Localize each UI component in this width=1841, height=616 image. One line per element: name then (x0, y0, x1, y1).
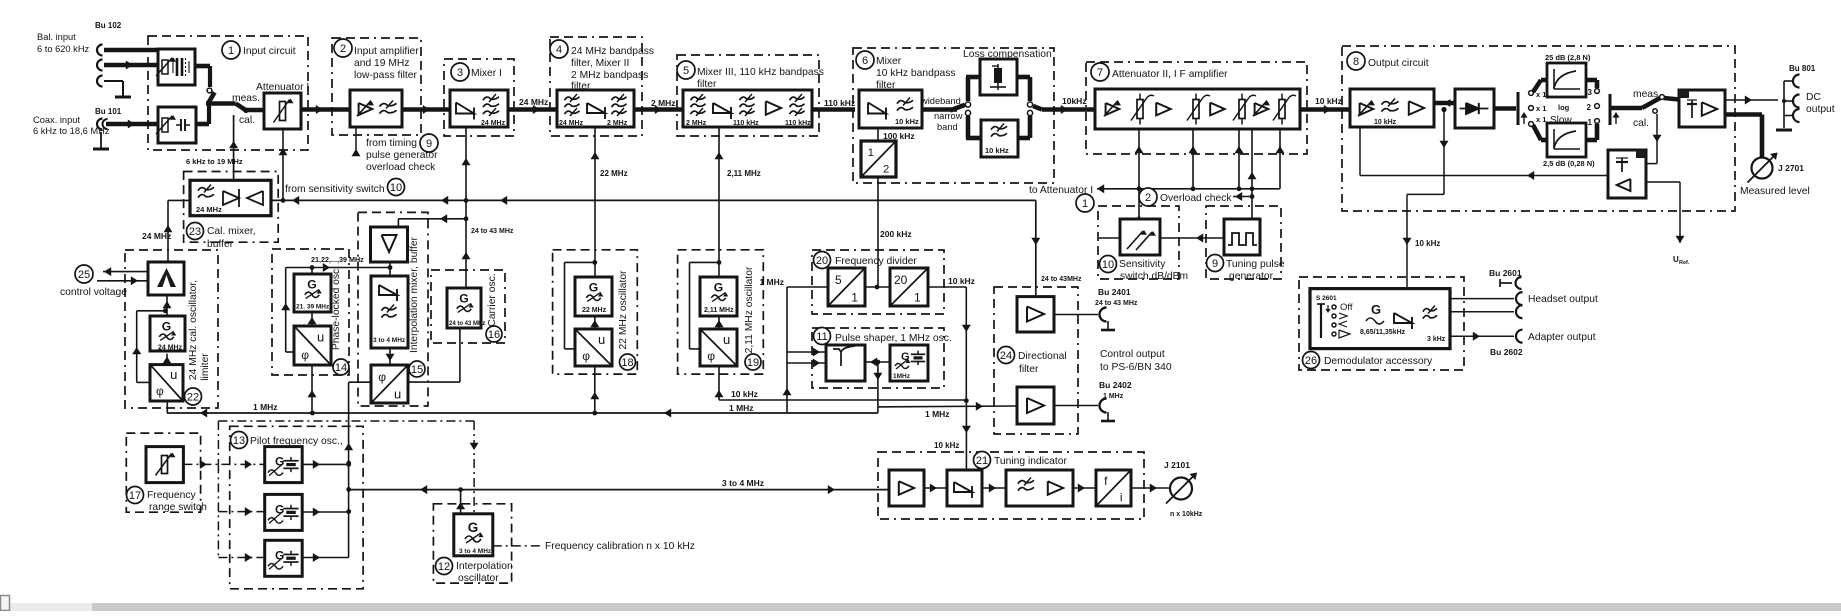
svg-text:10 kHz: 10 kHz (1415, 239, 1440, 248)
svg-text:1 MHz: 1 MHz (253, 402, 278, 412)
svg-text:1 MHz: 1 MHz (759, 277, 784, 287)
svg-text:1: 1 (914, 290, 921, 304)
svg-text:wideband: wideband (920, 96, 961, 106)
svg-text:cal.: cal. (239, 115, 255, 126)
svg-text:u: u (170, 367, 177, 382)
svg-text:pulse generator: pulse generator (366, 150, 438, 161)
svg-text:Coax. input: Coax. input (33, 115, 80, 125)
svg-text:15: 15 (411, 364, 423, 376)
svg-text:range switch: range switch (149, 502, 207, 513)
svg-text:and 19 MHz: and 19 MHz (354, 58, 410, 69)
svg-text:Attenuator II, I F amplifier: Attenuator II, I F amplifier (1112, 69, 1228, 80)
svg-text:10 kHz: 10 kHz (1315, 96, 1342, 106)
svg-text:25: 25 (78, 269, 90, 281)
svg-text:21,22,...,39 MHz: 21,22,...,39 MHz (311, 255, 364, 264)
svg-text:10 kHz: 10 kHz (1374, 119, 1397, 126)
svg-text:Frequency: Frequency (147, 490, 197, 501)
svg-text:Directional: Directional (1018, 351, 1067, 362)
svg-text:2,11 MHz oscillator: 2,11 MHz oscillator (744, 266, 755, 353)
svg-text:G: G (589, 281, 598, 295)
svg-text:Bu 2601: Bu 2601 (1489, 268, 1522, 278)
svg-text:Bu 2602: Bu 2602 (1490, 347, 1523, 357)
svg-text:Frequency calibration n x 10: Frequency calibration n x 10 kHz (545, 541, 695, 552)
svg-text:11: 11 (816, 331, 827, 343)
svg-text:110 kHz: 110 kHz (785, 120, 811, 127)
svg-text:Frequency divider: Frequency divider (835, 256, 917, 267)
svg-text:Tuning indicator: Tuning indicator (994, 456, 1067, 467)
svg-text:6: 6 (862, 55, 868, 67)
svg-text:1MHz: 1MHz (893, 373, 911, 380)
svg-text:26: 26 (1305, 355, 1317, 367)
svg-text:21. 39 MHz: 21. 39 MHz (296, 304, 330, 311)
svg-text:24 MHz: 24 MHz (481, 120, 506, 127)
svg-text:Adapter output: Adapter output (1528, 332, 1596, 343)
svg-text:100 kHz: 100 kHz (883, 131, 915, 141)
svg-text:u: u (598, 332, 605, 347)
svg-text:24 MHz: 24 MHz (158, 345, 183, 352)
svg-text:2 MHz: 2 MHz (607, 120, 628, 127)
svg-text:14: 14 (335, 362, 347, 374)
svg-text:DC: DC (1806, 92, 1821, 103)
svg-text:G: G (459, 292, 468, 306)
svg-text:2: 2 (340, 43, 346, 55)
svg-text:Ref.: Ref. (1679, 260, 1690, 266)
svg-text:φ: φ (301, 348, 309, 362)
svg-text:1: 1 (868, 147, 874, 159)
svg-text:3: 3 (457, 67, 463, 79)
svg-text:filter: filter (697, 79, 717, 90)
svg-text:1 MHz: 1 MHz (925, 409, 950, 419)
svg-text:Bu 102: Bu 102 (95, 21, 122, 30)
svg-text:10 kHz bandpass: 10 kHz bandpass (876, 68, 956, 79)
svg-text:2 MHz: 2 MHz (686, 120, 707, 127)
svg-text:2 MHz: 2 MHz (651, 98, 676, 108)
svg-text:Input amplifier: Input amplifier (354, 46, 419, 57)
svg-text:9: 9 (1212, 258, 1218, 270)
svg-text:Phase-locked osc.: Phase-locked osc. (331, 266, 342, 350)
svg-text:16: 16 (488, 329, 500, 341)
svg-text:Sensitivity: Sensitivity (1119, 259, 1166, 270)
svg-text:19: 19 (747, 357, 759, 369)
svg-text:G: G (1371, 302, 1381, 317)
svg-text:overload check: overload check (366, 162, 436, 173)
svg-text:18: 18 (621, 357, 633, 369)
svg-text:5: 5 (835, 273, 842, 287)
svg-text:S 2601: S 2601 (1316, 295, 1337, 302)
svg-text:1 MHz: 1 MHz (729, 403, 754, 413)
svg-text:3 to 4 MHz: 3 to 4 MHz (459, 548, 492, 555)
svg-text:i: i (1120, 491, 1123, 505)
svg-text:Cal. mixer,: Cal. mixer, (207, 226, 256, 237)
svg-text:1: 1 (1588, 118, 1593, 127)
svg-text:Mixer III, 110 kHz bandpass: Mixer III, 110 kHz bandpass (697, 67, 824, 78)
svg-text:110 kHz: 110 kHz (824, 98, 855, 108)
svg-text:6 to 620 kHz: 6 to 620 kHz (37, 44, 90, 54)
svg-text:G: G (714, 281, 723, 295)
svg-text:Output circuit: Output circuit (1368, 58, 1429, 69)
svg-text:u: u (394, 386, 401, 401)
svg-text:24 to 43MHz: 24 to 43MHz (1041, 276, 1082, 283)
svg-text:6 kHz to 19 MHz: 6 kHz to 19 MHz (186, 157, 243, 166)
svg-text:21: 21 (976, 455, 988, 467)
svg-text:24 to 43 MHz: 24 to 43 MHz (449, 321, 485, 327)
svg-text:to PS-6/BN 340: to PS-6/BN 340 (1100, 362, 1172, 373)
svg-text:Measured level: Measured level (1740, 186, 1810, 197)
svg-text:8: 8 (1353, 56, 1359, 68)
svg-text:1: 1 (1082, 198, 1088, 210)
svg-text:Attenuator I: Attenuator I (256, 82, 309, 93)
svg-text:oscillator: oscillator (458, 573, 499, 584)
svg-text:u: u (723, 332, 730, 347)
svg-text:buffer: buffer (207, 239, 234, 250)
svg-text:3 kHz: 3 kHz (1427, 336, 1446, 343)
svg-text:1: 1 (851, 290, 858, 304)
svg-text:φ: φ (582, 349, 590, 363)
svg-text:switch dB/dBm: switch dB/dBm (1120, 271, 1188, 282)
svg-text:filter: filter (1019, 364, 1039, 375)
svg-text:output: output (1806, 104, 1835, 115)
svg-text:24 MHz: 24 MHz (559, 120, 584, 127)
svg-text:10 kHz: 10 kHz (948, 276, 975, 286)
svg-text:110 kHz: 110 kHz (733, 120, 759, 127)
svg-text:24 to 43 MHz: 24 to 43 MHz (471, 228, 514, 235)
svg-text:10 kHz: 10 kHz (985, 146, 1009, 155)
svg-text:J 2101: J 2101 (1164, 460, 1190, 470)
svg-text:24 MHz cal. oscillator,: 24 MHz cal. oscillator, (188, 280, 199, 380)
svg-text:limiter: limiter (200, 353, 211, 381)
svg-text:23: 23 (189, 226, 201, 238)
svg-text:200 kHz: 200 kHz (880, 229, 912, 239)
svg-text:24 to 43 MHz: 24 to 43 MHz (1095, 300, 1138, 307)
svg-text:20: 20 (894, 273, 908, 287)
svg-text:filter, Mixer II: filter, Mixer II (571, 58, 629, 69)
svg-text:4: 4 (556, 44, 562, 56)
svg-text:meas.: meas. (232, 93, 260, 104)
svg-text:10: 10 (1102, 259, 1114, 271)
svg-text:22 MHz oscillator: 22 MHz oscillator (618, 270, 629, 350)
svg-text:10: 10 (390, 182, 402, 194)
svg-text:2,5 dB (0,28 N): 2,5 dB (0,28 N) (1543, 159, 1595, 168)
svg-text:cal.: cal. (1633, 118, 1649, 129)
svg-text:Off: Off (1340, 302, 1353, 313)
svg-text:Carrier osc.: Carrier osc. (487, 273, 498, 326)
svg-text:Overload check: Overload check (1160, 193, 1232, 204)
svg-text:Tuning pulse: Tuning pulse (1226, 259, 1285, 270)
svg-text:7: 7 (1097, 67, 1103, 79)
svg-text:Bu 2401: Bu 2401 (1098, 287, 1131, 297)
svg-text:25 dB (2,8 N): 25 dB (2,8 N) (1545, 53, 1591, 62)
svg-text:22: 22 (187, 391, 199, 403)
svg-text:Pulse shaper, 1 MHz osc.: Pulse shaper, 1 MHz osc. (835, 333, 952, 344)
svg-text:G: G (162, 320, 171, 334)
svg-text:24: 24 (1000, 350, 1012, 362)
svg-text:Bal. input: Bal. input (37, 32, 76, 42)
svg-text:22 MHz: 22 MHz (600, 169, 628, 178)
svg-text:u: u (317, 330, 324, 345)
svg-text:2,11 MHz: 2,11 MHz (704, 307, 734, 314)
svg-text:Bu 101: Bu 101 (95, 107, 122, 116)
svg-text:10 kHz: 10 kHz (895, 117, 919, 126)
svg-text:narrow: narrow (934, 111, 963, 121)
svg-text:13: 13 (233, 435, 245, 447)
svg-text:log: log (1558, 103, 1570, 112)
svg-text:10kHz: 10kHz (1062, 96, 1087, 106)
svg-text:24 MHz: 24 MHz (142, 231, 171, 241)
svg-text:Bu 2402: Bu 2402 (1099, 380, 1132, 390)
svg-text:10 kHz: 10 kHz (731, 389, 758, 399)
svg-text:x 1: x 1 (1536, 115, 1546, 124)
svg-text:5: 5 (683, 65, 689, 77)
svg-text:Demodulator accessory: Demodulator accessory (1324, 356, 1433, 367)
svg-text:x 1: x 1 (1536, 104, 1546, 113)
svg-text:20: 20 (816, 255, 828, 267)
svg-text:Headset output: Headset output (1528, 294, 1598, 305)
svg-text:1: 1 (228, 45, 234, 57)
svg-text:Interpolation: Interpolation (456, 561, 513, 572)
svg-text:band: band (937, 122, 958, 132)
svg-text:2 MHz bandpass: 2 MHz bandpass (571, 70, 648, 81)
svg-text:Loss compensation: Loss compensation (963, 49, 1052, 60)
svg-text:17: 17 (129, 490, 141, 502)
svg-text:Bu 801: Bu 801 (1789, 64, 1816, 73)
svg-text:2: 2 (883, 164, 889, 176)
svg-text:Input circuit: Input circuit (243, 46, 296, 57)
svg-text:12: 12 (438, 561, 450, 573)
svg-text:3 to 4 MHz: 3 to 4 MHz (373, 337, 406, 344)
svg-text:low-pass filter: low-pass filter (354, 70, 418, 81)
svg-text:n x 10kHz: n x 10kHz (1170, 511, 1203, 518)
svg-text:10 kHz: 10 kHz (934, 441, 959, 450)
svg-text:φ: φ (156, 384, 164, 398)
svg-text:1 MHz: 1 MHz (1103, 393, 1124, 400)
svg-text:22 MHz: 22 MHz (582, 307, 607, 314)
svg-text:φ: φ (378, 370, 386, 384)
svg-text:Mixer I: Mixer I (471, 68, 502, 79)
svg-text:Mixer: Mixer (876, 56, 902, 67)
svg-text:φ: φ (707, 349, 715, 363)
svg-text:9: 9 (426, 138, 432, 150)
svg-text:generator: generator (1229, 271, 1274, 282)
svg-text:2,11 MHz: 2,11 MHz (727, 169, 761, 178)
svg-text:J 2701: J 2701 (1778, 163, 1804, 173)
svg-text:2: 2 (1587, 103, 1592, 112)
svg-text:G: G (468, 520, 479, 535)
svg-text:2: 2 (1145, 192, 1151, 204)
svg-text:24 MHz: 24 MHz (196, 205, 222, 214)
svg-text:8,65/11,35kHz: 8,65/11,35kHz (1360, 329, 1406, 336)
svg-text:from timing: from timing (366, 138, 417, 149)
svg-text:control voltage: control voltage (60, 287, 127, 298)
svg-text:Control output: Control output (1100, 349, 1165, 360)
svg-text:3: 3 (1588, 88, 1593, 97)
svg-text:from sensitivity switch: from sensitivity switch (285, 184, 385, 195)
svg-text:24 MHz bandpass: 24 MHz bandpass (571, 46, 654, 57)
svg-text:3 to 4 MHz: 3 to 4 MHz (722, 478, 764, 488)
svg-text:24 MHz: 24 MHz (519, 97, 548, 107)
svg-text:G: G (307, 278, 316, 292)
svg-text:Interpolation mixer, buffer: Interpolation mixer, buffer (409, 236, 420, 353)
